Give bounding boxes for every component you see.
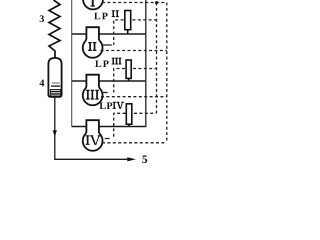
arrowhead outlet (right): [127, 157, 136, 161]
tank 4 (separator cylinder): [48, 58, 61, 97]
compressor I (top, cut off): [83, 0, 103, 9]
wire: right solid vertical rail: [145, 0, 147, 127]
solid tick compressor II right: [102, 44, 112, 46]
dashed line from compressor I to rails: [102, 2, 167, 4]
label LP IV: [100, 103, 113, 110]
valve LP IV: [126, 104, 132, 124]
dashed line compressor IV to rail 2: [102, 142, 167, 144]
wire: flow line from tank down and right to outlet 5: [55, 98, 128, 160]
compressor III: [83, 75, 103, 106]
label 5: [142, 156, 147, 164]
dashed line valve IV to rail 1: [134, 112, 157, 114]
dashed line valve III to rail 1: [133, 68, 157, 70]
wire: stage II horizontal line: [72, 33, 146, 35]
dashed pipe network: [101, 3, 167, 143]
wire: stage IV horizontal line: [72, 126, 147, 128]
label 4: [40, 80, 45, 87]
dashed riser valve IV to compressor IV: [114, 113, 126, 138]
label 3: [40, 15, 44, 22]
solid tick compressor III right: [102, 92, 108, 94]
junction dot on top dashed line: [155, 1, 158, 4]
dashed riser valve III to compressor III: [114, 69, 125, 93]
coil 3 (zigzag resistor): [49, 0, 60, 59]
compressor IV: [83, 120, 103, 151]
wire: stage III horizontal line: [72, 80, 146, 82]
tank 4 bottom hatched box: [50, 90, 60, 96]
compressor II (flask pump symbol): [83, 27, 103, 58]
dashed rail 1: [156, 3, 158, 114]
dashed line valve II to rail 1: [132, 19, 156, 21]
dashed riser valve II to compressor II: [114, 20, 124, 45]
dashed tick compressor IV right: [105, 138, 110, 140]
arrowhead mid flow line (down): [53, 130, 57, 137]
dashed rail 2: [166, 3, 168, 143]
valve LP III: [126, 60, 131, 78]
wire: left main vertical bus: [71, 0, 73, 127]
dashed line compressor II to rail 2: [101, 50, 167, 52]
label LP II: [94, 13, 107, 20]
label LP III: [95, 61, 108, 68]
dashed line compressor III to rail 2: [101, 96, 167, 98]
valve LP II (expansion valve): [125, 11, 131, 30]
tank 4 level lines: [51, 83, 60, 86]
